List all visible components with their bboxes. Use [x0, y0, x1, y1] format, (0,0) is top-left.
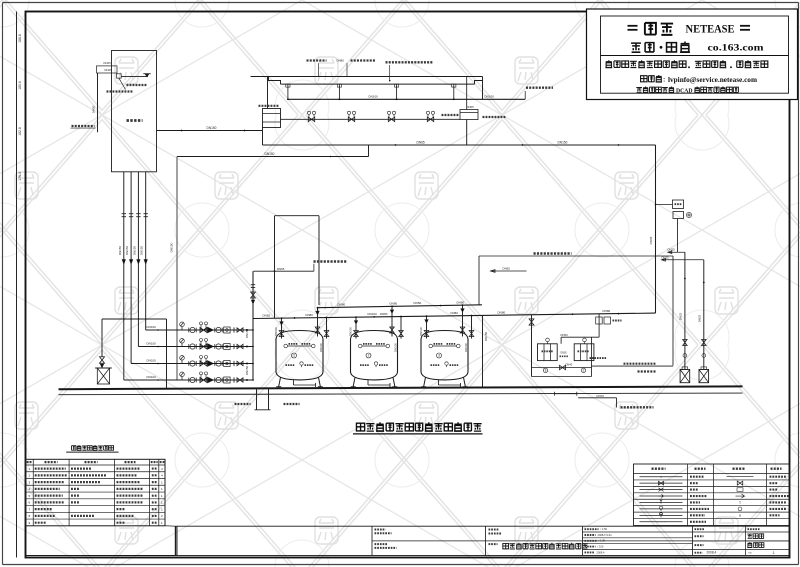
- svg-text:DN150: DN150: [132, 246, 136, 255]
- svg-text:1: 1: [545, 369, 547, 373]
- svg-text:DCAD: DCAD: [676, 89, 693, 95]
- svg-text:DN25: DN25: [679, 312, 683, 320]
- svg-text:DN150: DN150: [245, 366, 249, 376]
- svg-text:1: 1: [293, 354, 295, 358]
- svg-text:DN70: DN70: [597, 394, 605, 398]
- svg-text:NETEASE: NETEASE: [686, 24, 735, 36]
- svg-text:DN100: DN100: [419, 327, 423, 336]
- svg-text:DN150: DN150: [118, 246, 122, 255]
- svg-text:2008.4: 2008.4: [707, 551, 717, 555]
- svg-text:2: 2: [583, 369, 585, 373]
- svg-text:2008.4: 2008.4: [597, 550, 605, 554]
- svg-text::: :: [663, 77, 665, 84]
- svg-text:/ 100: / 100: [598, 545, 604, 549]
- svg-text:DN65: DN65: [277, 267, 285, 271]
- svg-text:DN40: DN40: [566, 363, 573, 367]
- svg-text:DN150: DN150: [558, 141, 568, 145]
- svg-text:DN80: DN80: [603, 309, 611, 313]
- svg-text:2: 2: [368, 354, 370, 358]
- svg-text:lvpinfo@service.netease.com: lvpinfo@service.netease.com: [668, 77, 757, 84]
- svg-text:2008-T/1-01: 2008-T/1-01: [598, 533, 613, 537]
- svg-text:DN80: DN80: [451, 311, 459, 315]
- svg-text:3: 3: [438, 354, 440, 358]
- svg-text:DN150: DN150: [207, 126, 217, 130]
- svg-text:DN150: DN150: [245, 329, 249, 339]
- svg-text:DN80: DN80: [380, 312, 388, 316]
- svg-text:DN25: DN25: [698, 314, 702, 322]
- svg-text:DN80: DN80: [338, 303, 346, 307]
- svg-text:DN100: DN100: [147, 342, 157, 346]
- svg-text:DN100: DN100: [485, 95, 495, 99]
- svg-text:DN100: DN100: [147, 375, 157, 379]
- svg-text:182.8: 182.8: [18, 127, 22, 136]
- svg-text:DN50: DN50: [561, 333, 569, 337]
- svg-text:DN100: DN100: [147, 359, 157, 363]
- svg-text:DN100: DN100: [368, 312, 378, 316]
- svg-text:188.8: 188.8: [18, 34, 22, 43]
- svg-text:DN80: DN80: [457, 300, 465, 304]
- svg-text:DN150: DN150: [484, 332, 488, 342]
- svg-text:DN150: DN150: [265, 152, 275, 156]
- svg-text:DN50: DN50: [414, 301, 422, 305]
- svg-text:185.6: 185.6: [18, 81, 22, 90]
- svg-text:DN65: DN65: [467, 105, 475, 109]
- svg-text:DN100: DN100: [274, 327, 278, 336]
- svg-text:DN100: DN100: [349, 327, 353, 336]
- svg-text:DN100: DN100: [464, 343, 468, 352]
- svg-text:DN65: DN65: [649, 236, 653, 244]
- svg-text:DN150: DN150: [170, 242, 174, 252]
- svg-text:DN65: DN65: [417, 141, 425, 145]
- svg-text:179.4: 179.4: [18, 172, 22, 181]
- svg-text:DN50: DN50: [561, 351, 568, 354]
- svg-text:DN50: DN50: [92, 105, 96, 113]
- svg-text:DN65: DN65: [263, 314, 271, 318]
- svg-text:/ 1:50: / 1:50: [601, 527, 608, 531]
- svg-text:DN80: DN80: [337, 59, 345, 63]
- svg-text:DN100: DN100: [394, 343, 398, 352]
- svg-text:DN25: DN25: [662, 255, 670, 259]
- svg-text:T: T: [739, 501, 741, 505]
- svg-text:DN25: DN25: [668, 248, 676, 252]
- svg-text:DN150: DN150: [125, 246, 129, 255]
- svg-text:DN80: DN80: [498, 310, 506, 314]
- svg-text:9: 9: [739, 514, 741, 518]
- svg-text:co.163.com: co.163.com: [708, 43, 764, 53]
- svg-text:DN25: DN25: [104, 61, 112, 65]
- svg-text:DN65: DN65: [503, 267, 511, 271]
- svg-text:DN80: DN80: [306, 313, 314, 317]
- svg-text:DN100: DN100: [147, 325, 157, 329]
- svg-text:DN150: DN150: [140, 246, 144, 255]
- svg-text:DN100: DN100: [369, 95, 379, 99]
- svg-text:1: 1: [773, 551, 775, 555]
- svg-text:/ 1:25: / 1:25: [599, 539, 606, 543]
- svg-text:DN25: DN25: [105, 68, 113, 72]
- svg-text:DN80: DN80: [390, 302, 398, 306]
- svg-text:DN100: DN100: [319, 343, 323, 352]
